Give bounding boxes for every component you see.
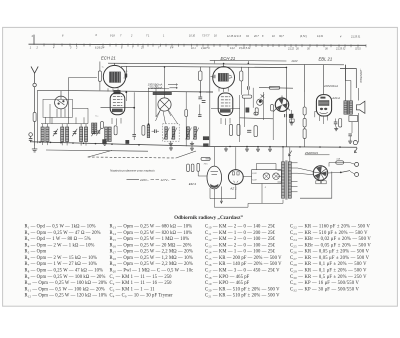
wire osc diagonals: [156, 110, 178, 124]
svg-text:R₂ — Opm — 0,25 W — 47 Ω — 20%: R₂ — Opm — 0,25 W — 47 Ω — 20%: [25, 231, 101, 236]
svg-text:C₃₂ — KP — 30 μF — 500/550 V: C₃₂ — KP — 30 μF — 500/550 V: [290, 287, 360, 292]
svg-text:15,20,5 24: 15,20,5 24: [239, 47, 251, 50]
coil L3/L4 (antenna, band 2): [61, 127, 69, 142]
parts list col4 row 4: [290, 243, 371, 248]
coil T1 primary: [165, 127, 168, 139]
resistor + choke pair: [142, 125, 150, 138]
wire divider: [304, 92, 306, 147]
svg-text:R₄ — Opm — 2 W — 1 kΩ — 10%: R₄ — Opm — 2 W — 1 kΩ — 10%: [25, 243, 95, 248]
capacitor C16: [202, 101, 206, 103]
parts list col1 row 4: [25, 243, 95, 248]
note line 1: [110, 168, 155, 172]
resistor (divider 1): [303, 107, 306, 115]
ground (bus mid 6): [268, 147, 272, 151]
pickup arrow left: [289, 151, 292, 156]
trimmer C2: [72, 129, 77, 136]
tube U1 electrode block: [110, 72, 121, 83]
svg-text:7,5 7,7: 7,5 7,7: [202, 35, 210, 38]
parts list col1 row 6: [25, 256, 97, 261]
label mains voltage (rotated): [359, 69, 363, 84]
capacitor C15: [198, 97, 202, 99]
wire mid stub: [206, 91, 213, 93]
ground (bus mid 1): [169, 146, 173, 150]
svg-text:R₁₂ — Opm — 0,25 W — 120 kΩ —: R₁₂ — Opm — 0,25 W — 120 kΩ — 10%: [25, 294, 108, 299]
parts list col1 row 2: [25, 231, 101, 236]
junction dots mid: [125, 63, 287, 125]
svg-text:R₁₆ — Opm — 0,25 W — 20 MΩ — 2: R₁₆ — Opm — 0,25 W — 20 MΩ — 20%: [110, 243, 192, 248]
svg-text:C₂₂ — KR — 1160 pF ± 20% — 500: C₂₂ — KR — 1160 pF ± 20% — 500 V: [290, 225, 370, 230]
svg-text:R₁ — Opd — 0,5 W — 1kΩ — 10%: R₁ — Opd — 0,5 W — 1kΩ — 10%: [25, 225, 96, 230]
tube V3 EBL21 envelope: [316, 95, 331, 116]
capacitor (block, dark): [203, 137, 209, 140]
parts list col2 row 9: [110, 275, 173, 280]
svg-text:21,25 31: 21,25 31: [350, 35, 361, 38]
ground (bus mid 4): [245, 147, 249, 151]
ground (T1): [169, 141, 173, 145]
transformer T-mains primary: [282, 162, 285, 198]
parts list col2 row 2: [110, 231, 193, 236]
coil L5/L6 (antenna, band 3): [80, 127, 88, 142]
svg-text:4,02/7 6: 4,02/7 6: [201, 47, 210, 50]
capacitor (coupling): [247, 67, 249, 95]
antenna: [31, 67, 38, 84]
dial lamp box: [252, 170, 282, 184]
capacitor C7: [132, 130, 136, 140]
svg-text:ZSRP20/4: ZSRP20/4: [304, 151, 318, 155]
wire top HT bus: [108, 63, 344, 65]
resistor (IF bias): [229, 124, 232, 135]
label EM 4: [189, 182, 197, 186]
parts list col2 row 3: [110, 237, 190, 242]
wire U1 top to bus: [114, 63, 116, 65]
wire transformer taps right: [291, 163, 297, 192]
svg-text:C₂₄ — KBr — 0,02 μF ± 20% — 50: C₂₄ — KBr — 0,02 μF ± 20% — 500 V: [290, 237, 371, 242]
parts list col3 row 12: [205, 294, 280, 299]
wire antenna lead: [34, 87, 36, 113]
svg-text:R₁₈ — Opm — 0,25 W — 1,2 MΩ —: R₁₈ — Opm — 0,25 W — 1,2 MΩ — 10%: [110, 256, 193, 261]
wire detector feed: [259, 87, 293, 90]
ground (bus mid 5): [256, 147, 260, 151]
wire V3 top: [323, 65, 325, 95]
resistor (EM4 grid): [197, 163, 200, 171]
svg-text:R₁₃ — Opm — 0,25 W — 680 kΩ —: R₁₃ — Opm — 0,25 W — 680 kΩ — 10%: [110, 225, 193, 230]
svg-text:14,31: 14,31: [317, 35, 324, 38]
svg-text:R₁₅ — Opm — 0,25 W — 1 MΩ — 10: R₁₅ — Opm — 0,25 W — 1 MΩ — 10%: [110, 237, 190, 242]
parts list col4 row 7: [290, 262, 367, 267]
IF transformer T2 coils: [186, 127, 199, 140]
svg-text:10 1: 10 1: [191, 47, 196, 50]
lamp La2: [273, 173, 280, 180]
wire U1 grid lead: [68, 62, 100, 92]
label Cw left: [102, 67, 105, 69]
wire through V2: [211, 108, 240, 110]
svg-text:12 15 14 1/ 6: 12 15 14 1/ 6: [227, 35, 242, 38]
parts list col2 row 10: [110, 281, 173, 286]
svg-text:14,2: 14,2: [230, 47, 235, 50]
oscillator section (gang) circle: [156, 95, 171, 117]
junction blob 2: [126, 140, 129, 143]
tube V2 ECH21 envelope: [218, 93, 233, 116]
capacitor C (IF in): [152, 129, 159, 133]
wire fuse leads: [329, 163, 351, 167]
mains plug lower: [355, 173, 359, 177]
parts list col3 row 10: [205, 281, 250, 286]
parts list col2 row 11: [110, 287, 156, 292]
svg-text:C₂₇ — KR — 0,05 μF ± 20% — 500: C₂₇ — KR — 0,05 μF ± 20% — 500 V: [290, 256, 370, 261]
svg-text:R₁₁ — Opm — 0,5 W — 100 kΩ — 2: R₁₁ — Opm — 0,5 W — 100 kΩ — 20%: [25, 287, 105, 292]
svg-text:~220V/50Hz: ~220V/50Hz: [359, 69, 363, 84]
tube V4 EM4 envelope: [207, 166, 222, 189]
trimmer C1: [53, 129, 58, 136]
svg-text:R₈ — Opm — 0,25 W — 47 kΩ — 10: R₈ — Opm — 0,25 W — 47 kΩ — 10%: [25, 268, 104, 273]
transformer T-out core: [347, 100, 350, 115]
svg-text:127V~: 127V~: [161, 178, 170, 182]
trimmer C3: [91, 129, 96, 136]
wire grid link: [126, 84, 156, 130]
svg-text:R₁₉ — Opm — 0,25 W — 2,2 MΩ —: R₁₉ — Opm — 0,25 W — 2,2 MΩ — 20%: [110, 262, 193, 267]
svg-text:20 7: 20 7: [253, 35, 259, 38]
svg-text:ECH 21: ECH 21: [101, 56, 116, 61]
wire V3 pins: [315, 111, 328, 124]
pickup jack arrow: [354, 148, 357, 153]
svg-text:Cᵥ: Cᵥ: [126, 71, 129, 73]
label ZSRP20/4: [304, 151, 330, 155]
svg-text:R₉ — Opm — 0,25 W — 100 kΩ — 2: R₉ — Opm — 0,25 W — 100 kΩ — 20%: [25, 275, 106, 280]
parts list col2 row 4: [110, 243, 192, 248]
wire screen bus: [38, 90, 214, 92]
trimmer T1a: [164, 128, 170, 140]
svg-text:C₁₄ — KM — 1 — 0 — 100 — 25€: C₁₄ — KM — 1 — 0 — 100 — 25€: [205, 250, 276, 255]
parts list col2 row 5: [110, 250, 193, 255]
junction dots on bus: [39, 141, 341, 148]
svg-text:EBL 21: EBL 21: [319, 56, 333, 61]
svg-text:R₁₇ — Opm — 0,25 W — 2,2 MΩ —: R₁₇ — Opm — 0,25 W — 2,2 MΩ — 20%: [110, 250, 193, 255]
wire U2 pins: [219, 88, 228, 92]
parts list col3 row 2: [205, 231, 276, 236]
parts list col4 row 10: [290, 281, 360, 286]
crossing mark: [261, 94, 265, 97]
parts list col2 row 1: [110, 225, 193, 230]
tube V1 ECH21 envelope: [110, 93, 125, 115]
capacitor (electrolytic, dark): [246, 108, 249, 112]
wire AZ1 top: [235, 147, 237, 169]
svg-text:220V/34mA: 220V/34mA: [323, 84, 338, 88]
parts list col2 row 8: [110, 268, 194, 273]
parts list col1 row 8: [25, 268, 104, 273]
volume potentiometer circle: [274, 96, 291, 112]
band switch S1: [55, 96, 68, 117]
svg-text:30,7: 30,7: [279, 35, 284, 38]
parts list col3 row 9: [205, 275, 250, 280]
parts list col1 row 11: [25, 287, 105, 292]
wire transformer top: [345, 65, 351, 101]
parts list col3 row 4: [205, 243, 276, 248]
transformer T-mains core: [286, 160, 287, 199]
parts list col1 row 7: [25, 262, 97, 267]
parts list col3 row 7: [205, 262, 282, 267]
wire speaker down: [352, 88, 359, 142]
capacitor C (AF): [285, 114, 287, 117]
small box (tone): [290, 119, 294, 122]
resistor (EM4 anode): [201, 157, 210, 160]
wire U2 top to bus: [211, 64, 224, 79]
resistor R (HT dropper): [199, 71, 202, 81]
wire transformer top: [283, 147, 290, 162]
wire secondary bus: [46, 150, 148, 151]
wire V1 pins: [112, 118, 121, 125]
capacitor (screen bypass): [290, 110, 294, 121]
svg-text:6,3V: 6,3V: [252, 180, 257, 182]
ganging diagonal right: [176, 151, 196, 158]
capacitor (output): [348, 134, 352, 139]
antenna terminal: [33, 83, 36, 86]
label EBL 21: [319, 56, 333, 61]
lamp La1: [263, 173, 270, 180]
svg-text:Cᵥ: Cᵥ: [102, 67, 105, 69]
wire AZ1 bottom loop: [210, 184, 248, 203]
parts list col3 row 8: [205, 268, 280, 273]
svg-text:C₁₉ — KPO — 465 pF: C₁₉ — KPO — 465 pF: [205, 281, 250, 286]
ground (screen bypass): [290, 121, 294, 125]
parts list col3 row 6: [205, 256, 282, 261]
wire selector to switch: [298, 168, 341, 175]
resistor (diode load): [242, 95, 252, 98]
svg-text:C₁₂ — KM — 2 — 0 — 100 — 25€: C₁₂ — KM — 2 — 0 — 100 — 25€: [205, 237, 276, 242]
field coil box: [349, 116, 358, 122]
parts list col1 row 3: [25, 237, 91, 242]
svg-text:C₁₈ — KPO — 465 pF: C₁₈ — KPO — 465 pF: [205, 275, 250, 280]
label ECH 21 (second): [221, 56, 236, 61]
ground (T2): [190, 141, 194, 145]
svg-text:R₃ — Opd — 1 W — 80 Ω — 5%: R₃ — Opd — 1 W — 80 Ω — 5%: [25, 237, 91, 242]
wire left riser: [37, 90, 39, 143]
parts list col1 row 10: [25, 281, 108, 286]
resistor R2 (osc): [101, 122, 104, 129]
svg-text:Napięcia podawane przy napięci: Napięcia podawane przy napięciu: [110, 168, 155, 172]
trimmer C4: [96, 128, 101, 135]
junction diode circle: [257, 99, 263, 105]
svg-text:21,22: 21,22: [287, 47, 295, 50]
parts list col4 row 5: [290, 250, 370, 255]
resistor (det filter): [269, 86, 280, 89]
svg-text:220V~: 220V~: [139, 178, 149, 182]
coil RF choke: [92, 123, 97, 133]
resistor (divider a): [237, 124, 257, 136]
label AZ 1: [229, 186, 237, 190]
resistor (divider 3): [303, 129, 306, 139]
svg-text:C₂₆ — KR — 0,05 μF ± 20% — 500: C₂₆ — KR — 0,05 μF ± 20% — 500 V: [290, 250, 370, 255]
mains plug upper: [351, 162, 359, 166]
capacitor (AVC): [198, 104, 201, 116]
wire heater line: [210, 60, 287, 63]
resistor (AF grid): [271, 104, 274, 111]
resistor (AVC chain): [185, 92, 188, 146]
coil T1 secondary: [172, 127, 175, 139]
svg-text:C₂₀ — KR — 510 pF ± 20% — 500: C₂₀ — KR — 510 pF ± 20% — 500 V: [205, 287, 280, 292]
wire speaker top feed: [340, 69, 356, 89]
jack terminal circle: [353, 141, 357, 145]
wire U1 pins: [108, 66, 126, 91]
voltage selector: [313, 166, 327, 180]
wire EM4 connections: [198, 147, 214, 176]
svg-text:C₁₇ — KM — 3 — 0 — 450 — 25€ V: C₁₇ — KM — 3 — 0 — 450 — 25€ V: [205, 268, 280, 273]
trimmer T1b: [171, 128, 177, 140]
wire band switch to screen bus: [60, 91, 62, 96]
coil L1/L2 (antenna, band 1): [41, 127, 49, 142]
parts list col1 row 12: [25, 294, 108, 299]
label fuse: [336, 157, 340, 160]
tube V5 AZ1 envelope: [228, 170, 243, 185]
parts list col2 row 6: [110, 256, 193, 261]
svg-text:C₂₈ — KR — 0,1 μF ± 20% — 500: C₂₈ — KR — 0,1 μF ± 20% — 500 V: [290, 262, 367, 267]
wire AZ1 to lamp box: [243, 164, 276, 177]
svg-text:6,3V: 6,3V: [252, 173, 257, 175]
svg-text:C₁₀ — KM — 2 — 0 — 140 — 25€: C₁₀ — KM — 2 — 0 — 140 — 25€: [205, 225, 276, 230]
dial scale ruler: [29, 34, 367, 50]
svg-text:C₁₃ — KM — 2 — 0 — 100 — 25€: C₁₃ — KM — 2 — 0 — 100 — 25€: [205, 243, 276, 248]
svg-text:C₁ — KM 1 — 11 — 15 — 250: C₁ — KM 1 — 11 — 15 — 250: [110, 275, 173, 280]
svg-text:R₁₀ — Opm — 0,25 W — 100 kΩ —: R₁₀ — Opm — 0,25 W — 100 kΩ — 20%: [25, 281, 108, 286]
svg-text:R₅ — Opm: R₅ — Opm: [25, 250, 47, 255]
wave band switch box: [43, 99, 72, 117]
ground (output cap): [348, 139, 352, 143]
tube U2 ECH21 socket circle: [213, 67, 235, 89]
resistor (U2 screen): [240, 67, 243, 95]
svg-text:R₂₀ — Pwl — 1 MΩ — C — 0,5 W —: R₂₀ — Pwl — 1 MΩ — C — 0,5 W — 10c: [110, 268, 194, 273]
wire second top bus: [121, 66, 286, 67]
resistor (divider 2): [303, 118, 306, 127]
transformer T-mains secondary: [288, 162, 291, 198]
wire HT corner drop: [344, 65, 346, 81]
resistor (cathode): [255, 108, 258, 115]
junction blob 3: [203, 144, 208, 147]
transformer T-out primary: [344, 101, 347, 114]
parts list col1 row 5: [25, 250, 47, 255]
ganging diagonal left: [88, 150, 112, 157]
svg-text:9 18: 9 18: [110, 34, 115, 37]
svg-text:Odbiornik radiowy „Czardasz”: Odbiornik radiowy „Czardasz”: [174, 215, 243, 221]
wire box to coils: [46, 117, 85, 123]
svg-text:C₂ — KM 1 — 11 — 16 — 250: C₂ — KM 1 — 11 — 16 — 250: [110, 281, 173, 286]
svg-text:R₁₄ — Opm — 0,25 W — 820 kΩ —: R₁₄ — Opm — 0,25 W — 820 kΩ — 10%: [110, 231, 193, 236]
small parts left of EM4: [187, 164, 194, 172]
ganging link (dashed): [88, 157, 176, 158]
label 6,3V upper: [252, 173, 257, 175]
label 4v6mA: [332, 97, 341, 100]
resistor (cathode bias V3): [339, 119, 342, 128]
wire V2 pins: [221, 118, 230, 125]
parts list col3 row 1: [205, 225, 276, 230]
earth terminal: [29, 133, 33, 138]
ground (bus mid 2): [190, 146, 194, 150]
svg-text:C₂₉ — KR — 0,1 μF ± 20% — 500: C₂₉ — KR — 0,1 μF ± 20% — 500 V: [290, 268, 367, 273]
svg-text:C₃₀ — KR — 0,5 μF ± 20% — 250: C₃₀ — KR — 0,5 μF ± 20% — 250 V: [290, 275, 367, 280]
wire mains return: [300, 172, 332, 199]
wire detector verticals: [240, 68, 287, 147]
label lamp 2: [264, 187, 267, 189]
wire antenna lead lower: [34, 121, 36, 146]
resistor (divider b): [247, 112, 258, 132]
parts list col1 row 9: [25, 275, 106, 280]
svg-text:21,25 32: 21,25 32: [335, 48, 346, 51]
svg-text:R₇ — Opm — 1 W — 27 kΩ — 10%: R₇ — Opm — 1 W — 27 kΩ — 10%: [25, 262, 97, 267]
capacitor C (tone, dark): [289, 114, 293, 117]
label 210V: [291, 59, 298, 63]
transformer T-out secondary: [349, 101, 352, 114]
resistor (grid stopper U1): [98, 71, 101, 81]
svg-text:C₁₆ — KR — 140 pF — 20% — 500: C₁₆ — KR — 140 pF — 20% — 500 V: [205, 262, 282, 267]
parts list col4 row 8: [290, 268, 367, 273]
svg-text:(4,72,): (4,72,): [300, 35, 307, 38]
svg-text:C₁₅ — KR — 200 pF — 20% — 500: C₁₅ — KR — 200 pF — 20% — 500 V: [205, 256, 282, 261]
parts list col4 row 2: [290, 231, 368, 236]
svg-text:6,2/6,2/4: 6,2/6,2/4: [95, 47, 105, 50]
parts list col3 row 11: [205, 287, 280, 292]
wire coil top link: [41, 124, 88, 127]
wire bottom return: [214, 189, 283, 207]
ground (bus mid 3): [224, 147, 228, 151]
capacitor (cathode bypass): [334, 119, 338, 127]
svg-text:EM 4: EM 4: [189, 182, 197, 186]
ground (osc coil): [103, 141, 107, 146]
parts list col4 row 3: [290, 237, 371, 242]
svg-text:C₂₅ — KBr — 0,05 μF ± 20% — 50: C₂₅ — KBr — 0,05 μF ± 20% — 500 V: [290, 243, 371, 248]
svg-text:C₁₁ — KM — 1 — 0 — 200 — 25€: C₁₁ — KM — 1 — 0 — 200 — 25€: [205, 231, 276, 236]
capacitor (U1 top): [125, 74, 127, 78]
parts list col4 row 1: [290, 225, 370, 230]
fuse F1: [336, 161, 344, 164]
wire long AVC vertical: [209, 67, 211, 147]
capacitor (earth blocking): [29, 139, 33, 143]
svg-text:R₆ — Opm — 2 W — 15 kΩ — 10%: R₆ — Opm — 2 W — 15 kΩ — 10%: [25, 256, 97, 261]
selector taps: [316, 181, 326, 184]
IF transformer T1 box (dashed): [163, 124, 180, 141]
wire transformer taps left: [278, 170, 282, 182]
mains switch: [340, 171, 355, 174]
svg-text:C₄ — C₉ — 10 — 30 pF Trymer: C₄ — C₉ — 10 — 30 pF Trymer: [110, 294, 174, 299]
parts list col4 row 6: [290, 256, 370, 261]
wire chassis bus: [30, 142, 357, 147]
label ECH 21 (first): [101, 56, 116, 61]
wire band wiring: [50, 91, 88, 123]
wire EM4 down arrow: [220, 187, 222, 204]
coil L7/L8 (oscillator): [105, 127, 112, 142]
note line 2: [127, 178, 176, 182]
label Cw right: [126, 71, 129, 73]
ground (antenna): [32, 146, 37, 152]
resistor (AGC): [114, 126, 117, 135]
label 1500 ohm 2mA: [148, 82, 178, 86]
parts list title: [174, 215, 243, 221]
svg-text:10 10: 10 10: [189, 35, 196, 38]
wire through V1: [101, 107, 135, 109]
parts list col3 row 5: [205, 250, 276, 255]
parts list col4 row 11: [290, 287, 360, 292]
label 70k: [204, 163, 209, 165]
svg-text:C₂₁ — KR — 510 pF ± 20% — 500: C₂₁ — KR — 510 pF ± 20% — 500 V: [205, 294, 280, 299]
resistor R1 0,5M (antenna leak): [33, 112, 36, 121]
wire osc circle to bus: [164, 67, 166, 95]
wire detector crossbar: [240, 118, 274, 119]
svg-text:C₂₃ — KR — 510 pF ± 20% — 500: C₂₃ — KR — 510 pF ± 20% — 500 V: [290, 231, 368, 236]
svg-text:C₃ — KM 1 — 1 — 11: C₃ — KM 1 — 1 — 11: [110, 287, 156, 292]
ground (cathode): [334, 127, 338, 131]
label 6,3V lower: [252, 180, 257, 182]
svg-text:C₃₁ — KP — 16 μF — 500/550 V: C₃₁ — KP — 16 μF — 500/550 V: [290, 281, 360, 286]
parts list col2 row 7: [110, 262, 193, 267]
speaker LS: [356, 101, 365, 113]
wire lamps down: [261, 184, 263, 204]
